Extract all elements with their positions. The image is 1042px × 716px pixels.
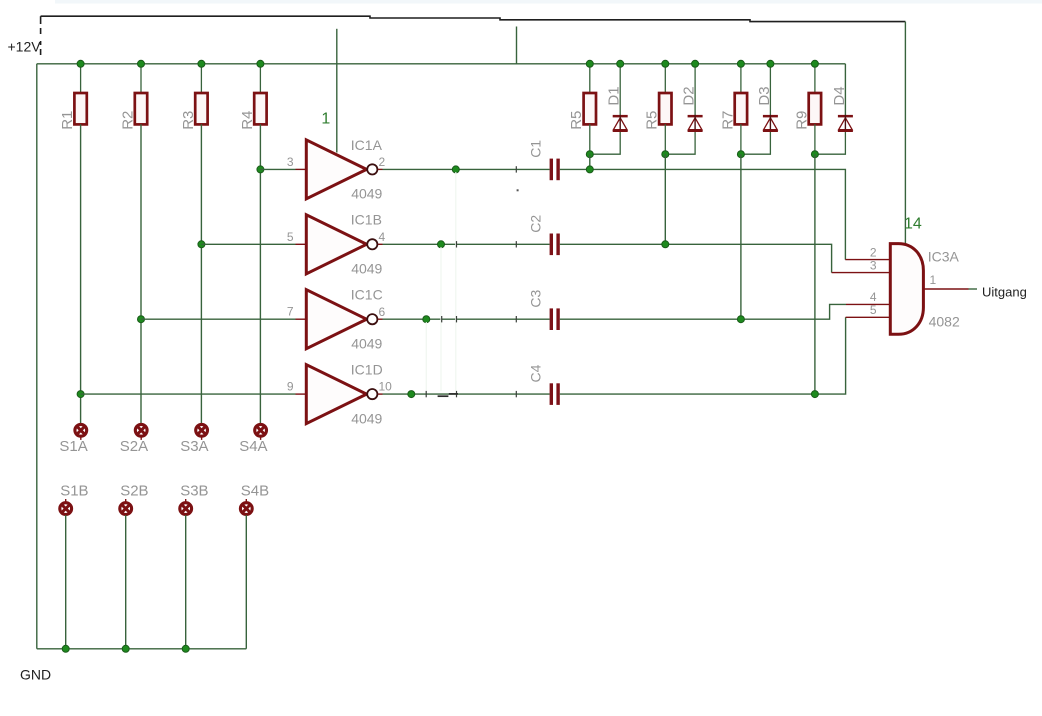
diode D1 (619, 64, 621, 115)
svg-text:Uitgang: Uitgang (982, 284, 1027, 299)
node tap junction (201.4,244) (198, 241, 205, 248)
node junction branch row 2 (662, 241, 669, 248)
wire input net row 1 (260, 168, 295, 170)
switch S1A (75, 424, 87, 436)
resistor R1 (80, 64, 82, 93)
diode D2 (694, 64, 696, 115)
pin output 6 (378, 318, 383, 320)
svg-text:3: 3 (287, 155, 294, 169)
wire vertical stub x=516 (516, 27, 518, 64)
svg-text:C4: C4 (528, 364, 544, 382)
wire C3 out to IC3 pin4 (560, 304, 846, 319)
svg-text:7: 7 (287, 305, 294, 319)
wire crossing tick (426.2,394) (425, 391, 427, 397)
svg-text:R9: R9 (793, 111, 810, 130)
node tap junction (80.6,394) (77, 391, 84, 398)
wire S1B to GND rail (65, 515, 67, 649)
svg-text:4: 4 (870, 290, 877, 304)
wire column x=141.0 down to switch (140, 124, 142, 424)
resistor R5 (group 2) (664, 64, 666, 93)
resistor R3 (200, 64, 202, 93)
wire branch down to row 1 (589, 154, 591, 169)
svg-text:6: 6 (379, 305, 386, 319)
wire right drop to IC3 pin 14 (904, 22, 906, 244)
svg-text:9: 9 (287, 380, 294, 394)
node junction branch row 4 (811, 391, 818, 398)
node output junction row 2 (438, 241, 445, 248)
svg-text:3: 3 (870, 258, 877, 272)
wire crossing tick (516.3,394) (515, 391, 517, 397)
svg-text:2: 2 (870, 245, 877, 259)
svg-text:S3B: S3B (180, 483, 208, 500)
node junction R1 top (77, 60, 84, 67)
wire crossing tick (441.7,319) (441, 316, 443, 322)
node tap junction (260.4,169) (257, 166, 264, 173)
wire D3 bottom to R7 bottom (741, 132, 771, 154)
wire GND bottom rail (37, 648, 247, 650)
pin 4 IC3A (846, 303, 890, 305)
wire IC1 pin 1 power (336, 29, 338, 153)
svg-text:D2: D2 (681, 86, 698, 105)
switch S3A (196, 424, 208, 436)
switch S2B (120, 503, 132, 515)
wire crossing tick (516.3,319) (515, 316, 517, 322)
svg-text:R3: R3 (180, 111, 197, 130)
pin 5 IC3A (846, 316, 891, 318)
svg-text:4049: 4049 (351, 186, 382, 202)
wire C4 out to IC3 pin5 (560, 317, 846, 394)
svg-text:R1: R1 (59, 111, 76, 130)
svg-text:IC1A: IC1A (351, 137, 383, 153)
node output junction row 3 (423, 316, 430, 323)
switch S2A (135, 424, 147, 436)
svg-text:4082: 4082 (929, 314, 960, 330)
svg-text:S1B: S1B (60, 483, 88, 500)
node junction R7 top (737, 60, 744, 67)
wire rail corner down to D4 (844, 64, 846, 115)
pin input 3 (296, 168, 307, 170)
switch S4B (240, 503, 252, 515)
svg-text:C3: C3 (528, 289, 544, 307)
node junction D2 top (692, 60, 699, 67)
pin output 4 (378, 243, 383, 245)
wire S2B to GND rail (125, 515, 127, 649)
switch S1B (60, 503, 72, 515)
svg-text:D3: D3 (756, 86, 773, 105)
wire D4 bottom to R9 bottom (815, 132, 846, 154)
pin input 5 (296, 243, 307, 245)
svg-text:1: 1 (930, 273, 937, 287)
node output junction row 1 (452, 166, 459, 173)
inverter IC1A (306, 140, 366, 199)
wire branch down to row 3 (740, 154, 742, 319)
resistor R5 (group 1) (589, 64, 591, 93)
node junction R7 bottom (737, 151, 744, 158)
switch S3B (180, 503, 192, 515)
svg-text:IC3A: IC3A (928, 249, 960, 265)
pin 3 IC3A (832, 272, 891, 274)
svg-text:S4A: S4A (239, 438, 267, 455)
wire branch down to row 4 (814, 154, 816, 394)
wire crossing tick (516.3,244) (515, 241, 517, 247)
node junction R4 top (257, 60, 264, 67)
pin input 9 (296, 393, 307, 395)
wire column x=80.6 down to switch (80, 124, 82, 424)
svg-text:5: 5 (870, 303, 877, 317)
resistor R4 (259, 64, 261, 93)
wire branch down to row 2 (664, 154, 666, 244)
pin output 2 (378, 168, 383, 170)
wire output net row 1 (383, 168, 550, 170)
resistor R9 (group 4) (814, 64, 816, 93)
capacitor C2 (550, 234, 553, 256)
pin input 7 (296, 318, 307, 320)
node junction R5 bottom (662, 151, 669, 158)
inverter IC1D (306, 365, 366, 424)
wire ghost vertical from row1 dot (455, 172, 457, 391)
svg-text:S3A: S3A (180, 438, 208, 455)
svg-text:R2: R2 (119, 111, 136, 130)
svg-text:D4: D4 (831, 86, 848, 105)
node junction R5 top (662, 60, 669, 67)
artifact dot x=517 (517, 189, 519, 191)
svg-text:+12V: +12V (8, 39, 42, 55)
node junction branch row 3 (737, 316, 744, 323)
svg-text:C2: C2 (528, 215, 544, 233)
node junction S1B GND (62, 645, 69, 652)
wire +12V supply stub (40, 16, 42, 24)
pin 1 output IC3A (923, 288, 968, 290)
svg-text:D1: D1 (606, 86, 623, 105)
svg-text:4049: 4049 (351, 410, 382, 426)
svg-text:R5: R5 (568, 111, 585, 130)
wire crossing tick (516.3,169) (515, 166, 517, 172)
svg-text:S4B: S4B (241, 483, 269, 500)
svg-text:1: 1 (321, 111, 330, 128)
svg-text:4: 4 (379, 230, 386, 244)
svg-text:R4: R4 (239, 111, 256, 130)
wire ghost vertical from row2 dot (440, 247, 442, 391)
wire output net row 4 (383, 393, 550, 395)
svg-text:14: 14 (904, 216, 922, 233)
pin 2 IC3A (845, 259, 890, 261)
inverter IC1B (306, 215, 366, 274)
svg-text:IC1C: IC1C (351, 287, 383, 303)
wire input net row 3 (141, 318, 296, 320)
node junction R9 top (811, 60, 818, 67)
wire S4B to GND rail (245, 515, 247, 649)
wire D2 bottom to R5 bottom (665, 132, 695, 154)
switch S4A (255, 424, 267, 436)
svg-text:R7: R7 (719, 111, 736, 130)
wire C1 out to IC3 pin2 (560, 169, 846, 259)
capacitor C1 (550, 159, 553, 181)
capacitor C4 (550, 383, 553, 405)
svg-text:S2A: S2A (120, 438, 148, 455)
wire C2 out to IC3 pin3 (560, 244, 832, 272)
node junction D1 top (617, 60, 624, 67)
node junction R3 top (198, 60, 205, 67)
resistor R7 (group 3) (740, 64, 742, 93)
node junction R2 top (138, 60, 145, 67)
wire S3B to GND rail (185, 515, 187, 649)
inverter IC1C (306, 290, 366, 349)
node junction R5 bottom (586, 151, 593, 158)
node junction S3B GND (182, 645, 189, 652)
artifact dash row4 on wire (449, 393, 458, 395)
node junction D3 top (767, 60, 774, 67)
wire +12V top loop (black) (41, 16, 906, 21)
svg-text:4049: 4049 (351, 261, 382, 277)
node output junction row 4 (408, 391, 415, 398)
diode D3 (769, 64, 771, 115)
wire ghost vertical from row3 dot (425, 322, 427, 391)
wire crossing tick (456.5,244) (456, 241, 458, 247)
pin output 10 (378, 393, 383, 395)
svg-text:R5: R5 (644, 111, 661, 130)
node junction R9 bottom (811, 151, 818, 158)
wire crossing tick (456.5,319) (456, 316, 458, 322)
wire output net row 3 (383, 318, 550, 320)
wire output net row 2 (383, 243, 550, 245)
node tap junction (141.0,319) (138, 316, 145, 323)
svg-text:4049: 4049 (351, 335, 382, 351)
wire input net row 2 (201, 243, 295, 245)
svg-text:S2B: S2B (120, 483, 148, 500)
node junction branch row 1 (586, 166, 593, 173)
svg-text:2: 2 (379, 155, 386, 169)
svg-text:S1A: S1A (59, 438, 87, 455)
svg-text:GND: GND (20, 667, 51, 683)
node junction R5 top (586, 60, 593, 67)
capacitor C3 (550, 308, 553, 330)
svg-text:C1: C1 (528, 140, 544, 158)
wire input net row 4 (81, 393, 296, 395)
wire column x=201.4 down to switch (200, 124, 202, 424)
op-amp/gate IC3A body (890, 244, 923, 335)
svg-text:IC1B: IC1B (351, 212, 382, 228)
wire output net (969, 288, 978, 290)
svg-text:5: 5 (287, 230, 294, 244)
resistor R2 (140, 64, 142, 93)
svg-text:10: 10 (379, 380, 393, 394)
wire D1 bottom to R5 bottom (590, 132, 620, 154)
artifact dash row4 below wire (438, 395, 449, 397)
svg-text:IC1D: IC1D (351, 362, 383, 378)
wire +12V horizontal rail (37, 63, 846, 65)
wire left vertical rail (36, 64, 38, 649)
wire crossing tick (456.5,394) (456, 391, 458, 397)
wire column x=260.4 down to switch (259, 124, 261, 424)
top tint band (55, 0, 1042, 4)
node junction S2B GND (122, 645, 129, 652)
